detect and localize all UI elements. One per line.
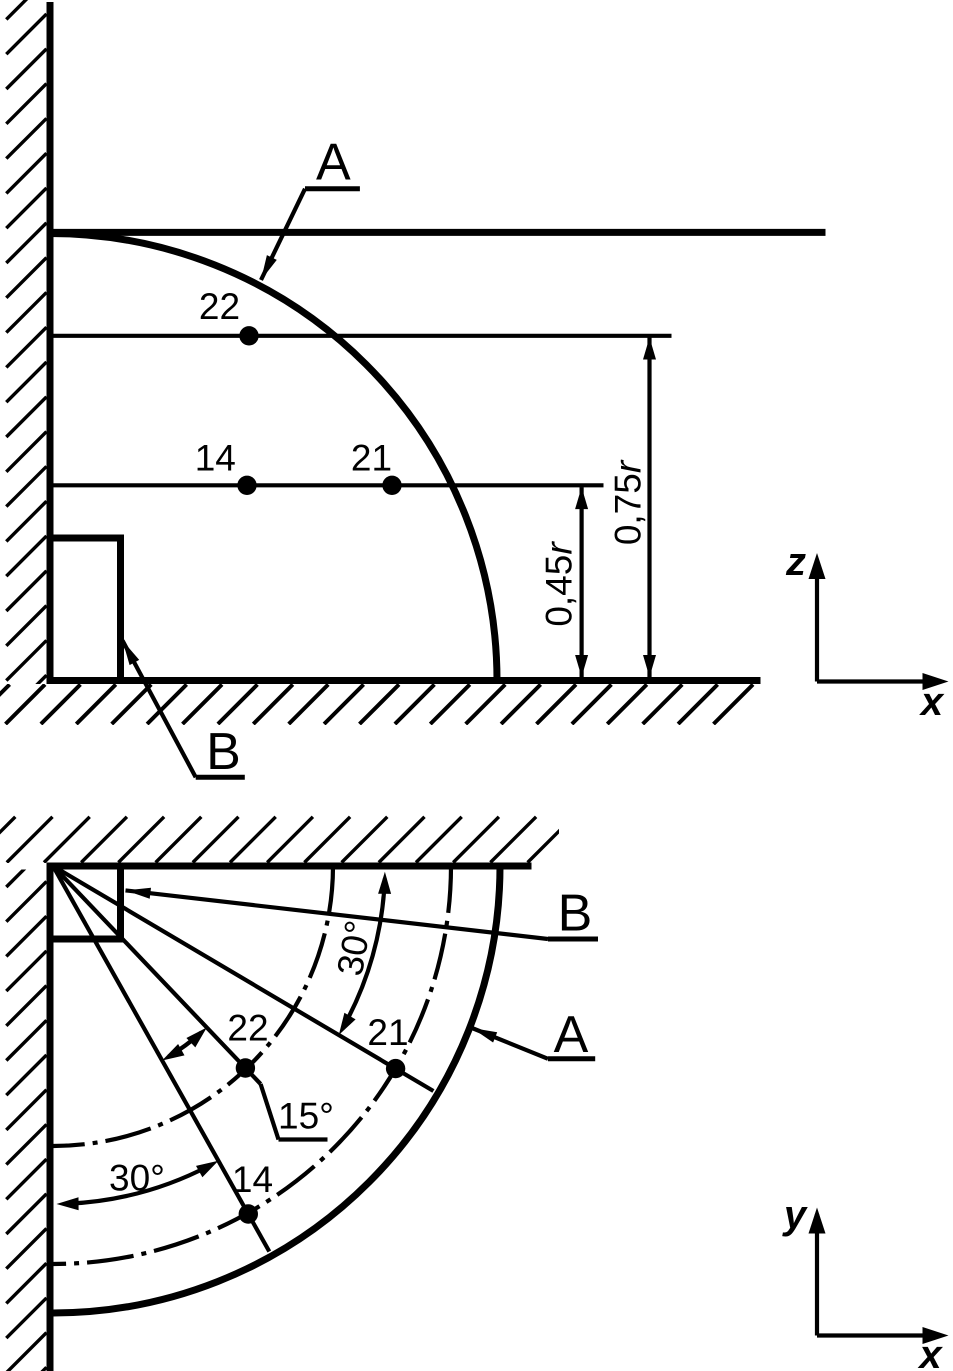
svg-text:14: 14 (195, 437, 236, 478)
svg-text:z: z (785, 540, 806, 584)
svg-text:A: A (554, 1006, 589, 1064)
svg-text:22: 22 (199, 286, 240, 327)
svg-text:B: B (558, 885, 593, 943)
svg-text:B: B (206, 723, 241, 781)
svg-text:30°: 30° (329, 917, 379, 978)
svg-text:0,45r: 0,45r (539, 541, 580, 627)
svg-text:21: 21 (367, 1012, 408, 1053)
svg-text:0,75r: 0,75r (608, 459, 649, 545)
svg-text:A: A (316, 134, 351, 192)
svg-text:21: 21 (351, 437, 392, 478)
svg-text:30°: 30° (109, 1158, 165, 1199)
svg-text:14: 14 (232, 1159, 273, 1200)
svg-text:x: x (917, 1333, 943, 1371)
svg-text:22: 22 (227, 1008, 268, 1049)
svg-text:x: x (919, 680, 945, 724)
svg-text:y: y (782, 1193, 808, 1237)
svg-text:15°: 15° (278, 1096, 334, 1137)
